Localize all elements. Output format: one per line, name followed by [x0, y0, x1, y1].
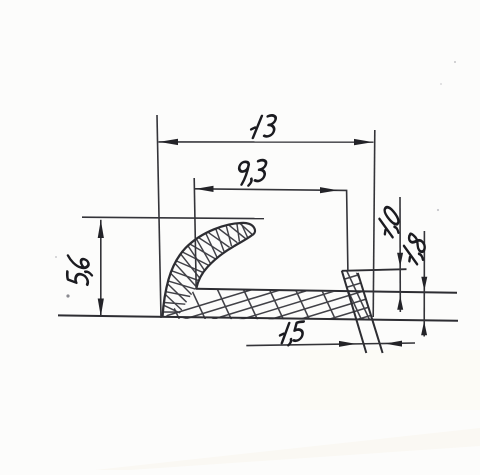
profile: base strip top edge [196, 289, 457, 293]
profile: curved lip inner edge [196, 235, 252, 289]
paper speck [440, 83, 442, 85]
dim 9,3: left arrow [196, 186, 214, 192]
dim 1,8: upper arrow [421, 277, 427, 291]
dim 1,5: dimension line [246, 343, 415, 346]
dim 1,5: right-pointing arrow [339, 341, 356, 347]
profile: base line (bottom edge, extended) [58, 315, 458, 320]
paper speck [66, 294, 69, 297]
dim 5,6: top extension line (tangent to lip) [82, 217, 264, 218]
dim 1,0: upper arrow [397, 253, 403, 267]
paper speck [55, 256, 57, 258]
hatching: base strip cross-hatch [120, 252, 480, 338]
paper speck [454, 61, 456, 63]
dim 9,3: dimension line with corner [195, 189, 348, 271]
dim 1,8: label "1,8" rotated [400, 232, 429, 269]
profile: tab right edge extended below base [358, 273, 383, 353]
paper speck [437, 209, 439, 211]
dim 13: right arrow [354, 139, 373, 145]
dim 1,5: label "1,5" [279, 321, 304, 346]
dim 5,6: bottom arrow [98, 299, 104, 317]
dim 5,6: label "5,6" rotated [67, 255, 92, 286]
profile: lip tip [241, 223, 255, 235]
dim 1,0: label "1,0" rotated [376, 205, 405, 241]
profile: tab top edge + extension to right [342, 269, 407, 271]
dim 1,0: dimension line [399, 197, 401, 312]
dim 1,0: lower arrow [397, 296, 403, 310]
dim 9,3: right arrow [320, 187, 338, 193]
dim 13: right extension line [373, 130, 375, 317]
dim 1,5: left-pointing arrow [385, 341, 402, 347]
dim 1,8: dimension line [423, 231, 425, 337]
dim 13: dimension line [159, 141, 374, 143]
hatching: curved lip cross-hatch [163, 223, 253, 313]
dim 1,8: lower arrow [421, 321, 427, 335]
dim 9,3: label "9,3" [237, 160, 267, 187]
dim 5,6: top arrow [98, 220, 104, 238]
dim 5,6: dimension line [100, 220, 102, 317]
profile: curved lip outer edge [163, 223, 242, 317]
dim 13: left extension line [157, 115, 161, 318]
dim 13: label "13" [250, 115, 277, 138]
dim 13: left arrow [159, 139, 178, 145]
dim 9,3: left extension line [194, 178, 196, 289]
profile: tab left edge extended below base [342, 271, 367, 353]
